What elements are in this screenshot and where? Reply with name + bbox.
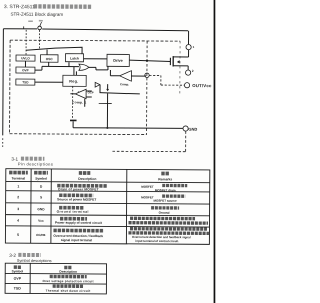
block labels [21, 56, 123, 85]
block Reg [63, 75, 86, 86]
wire UVLO to OVP [24, 61, 26, 67]
gate G1 [79, 64, 89, 70]
svg-text:5: 5 [17, 233, 19, 237]
wire down to ground rail [106, 94, 108, 128]
table 2 header [12, 267, 77, 274]
svg-text:Reg.: Reg. [69, 80, 78, 84]
node: input terminal circle [38, 26, 42, 30]
dashed vertical from Reg [72, 86, 74, 119]
svg-text:MOSFET: MOSFET [141, 185, 154, 189]
wire Vcc sense [131, 74, 145, 77]
pin 2 source terminal [186, 70, 191, 75]
block Drive [107, 54, 129, 66]
package dashed right edge [179, 41, 181, 94]
dashed drop from bus to UVLO [25, 30, 27, 55]
svg-text:UVLO: UVLO [21, 56, 30, 60]
wire C1 output [70, 91, 91, 107]
svg-text:3-2: 3-2 [9, 253, 16, 258]
dashed drop from input circle [38, 30, 40, 50]
wire Latch to Drive [84, 58, 107, 60]
wire: top Vin bus [3, 29, 188, 31]
junction dot on chip edge [146, 60, 148, 62]
wire bar to ground rail [72, 121, 74, 127]
svg-text:Terminal: Terminal [12, 176, 26, 180]
block Latch [65, 54, 83, 62]
wire Drive output to gate [129, 60, 170, 61]
buffer stage [95, 82, 100, 87]
page background [0, 0, 216, 303]
table 1 description column [53, 186, 107, 243]
wire: internal supply rail [26, 47, 82, 55]
page right gutter edge line [214, 0, 216, 303]
heading 3-2 symbol description [9, 253, 51, 263]
wire gate output to drive [89, 66, 108, 70]
table 1 header [9, 173, 172, 182]
wire: left vertical drop [2, 29, 5, 147]
block UVLO [16, 55, 35, 61]
svg-text:Description: Description [59, 270, 77, 274]
svg-text:OCP: OCP [88, 90, 94, 94]
svg-text:Drive: Drive [113, 59, 123, 63]
svg-text:Ground terminal: Ground terminal [57, 210, 89, 214]
dashed leader to Vcc pin [149, 75, 184, 85]
wire C2 output [110, 70, 119, 76]
svg-text:Vcc: Vcc [38, 219, 44, 223]
junction dot on ground rail [106, 127, 108, 129]
svg-text:OSC: OSC [46, 57, 54, 61]
wire ground rail [73, 127, 183, 130]
svg-text:3: 3 [17, 207, 19, 211]
wire TSD output [35, 81, 63, 83]
svg-text:OUT/Vcc: OUT/Vcc [192, 83, 212, 88]
svg-text:OC/FB: OC/FB [36, 233, 46, 237]
svg-text:MOSFET source: MOSFET source [154, 199, 178, 203]
svg-text:TSD: TSD [14, 286, 21, 290]
svg-text:OVP: OVP [14, 277, 22, 281]
table 1 pin number column [17, 184, 19, 236]
svg-text:2: 2 [17, 195, 19, 199]
table 2 frame [5, 263, 106, 294]
heading 3-1 pin description [11, 157, 53, 167]
svg-text:Source of power MOSFET: Source of power MOSFET [57, 197, 96, 201]
wire buffer drop [99, 85, 101, 93]
node on chip edge [145, 73, 149, 77]
svg-text:MOSFET: MOSFET [141, 195, 154, 199]
block TSD [16, 79, 35, 85]
dash-dot ground tail [112, 131, 185, 152]
pin OUT/Vcc terminal [184, 83, 189, 88]
svg-text:input terminal of control circ: input terminal of control circuit. [135, 239, 179, 243]
svg-text:Over voltage protection circui: Over voltage protection circuit [43, 279, 94, 283]
wire OSC down [48, 62, 50, 66]
comparator C2 [120, 71, 132, 82]
svg-text:Ground: Ground [159, 211, 170, 215]
svg-text:GND: GND [188, 127, 197, 132]
table 2 rows [14, 276, 94, 293]
wire: drain pin to MOSFET [188, 50, 190, 57]
svg-text:Comp. 1: Comp. 1 [72, 100, 86, 104]
mosfet arrow [177, 60, 180, 63]
svg-text:4: 4 [17, 219, 19, 223]
svg-text:GND: GND [37, 207, 45, 211]
svg-text:Symbol: Symbol [12, 269, 24, 273]
wire logic bus [42, 65, 79, 67]
svg-text:Comp.: Comp. [120, 82, 129, 86]
table 1 symbol column [36, 185, 46, 237]
svg-text:Symbol: Symbol [35, 177, 47, 181]
wire: right vertical to drain pin [187, 31, 189, 45]
svg-text:TSD: TSD [22, 80, 29, 84]
table 1 remark column [128, 185, 209, 244]
svg-text:Remarks: Remarks [158, 177, 172, 181]
title line 1: 3. STR-Z4511 series block diagram [4, 4, 92, 11]
table 1 frame [5, 169, 209, 245]
svg-text:Thermal shut down circuit: Thermal shut down circuit [46, 289, 91, 293]
hybrid IC dashed outline bottom [10, 133, 147, 136]
svg-text:Symbol descriptions: Symbol descriptions [17, 258, 52, 263]
svg-text:MOSFET drain: MOSFET drain [155, 188, 176, 192]
svg-text:Latch: Latch [70, 57, 79, 61]
block OVP [16, 67, 35, 73]
transistor Q1 power MOSFET [169, 58, 171, 65]
svg-text:Drain of power MOSFET: Drain of power MOSFET [58, 187, 99, 191]
pin 1 drain terminal [186, 45, 191, 50]
svg-text:Pin descriptions: Pin descriptions [18, 161, 53, 166]
current arrow [107, 84, 109, 89]
block OSC [40, 55, 58, 63]
electrode bar [70, 120, 77, 122]
comparator C1 OCP [75, 89, 86, 98]
tiny label marks above input [28, 20, 33, 22]
svg-text:OVP: OVP [22, 68, 29, 72]
svg-text:1: 1 [17, 184, 19, 188]
hybrid IC dashed outline left [9, 40, 12, 134]
wire short stub [99, 102, 112, 104]
svg-text:Power supply of control circui: Power supply of control circuit [55, 221, 103, 225]
wire sense line [99, 93, 139, 94]
wire OVP output [35, 66, 42, 70]
pin 3 GND terminal [183, 126, 188, 131]
hybrid IC dashed outline top [10, 40, 180, 41]
svg-text:STR-Z4511 Block diagram: STR-Z4511 Block diagram [10, 12, 63, 17]
svg-text:Description: Description [78, 177, 96, 181]
node tick on bus [23, 26, 25, 28]
wire Latch down [68, 62, 70, 66]
svg-text:3. STR-Z4511: 3. STR-Z4511 [4, 4, 35, 10]
control chip dashed right edge [146, 41, 149, 135]
wire into Reg top [74, 67, 77, 76]
svg-text:signal input terminal: signal input terminal [61, 238, 92, 242]
